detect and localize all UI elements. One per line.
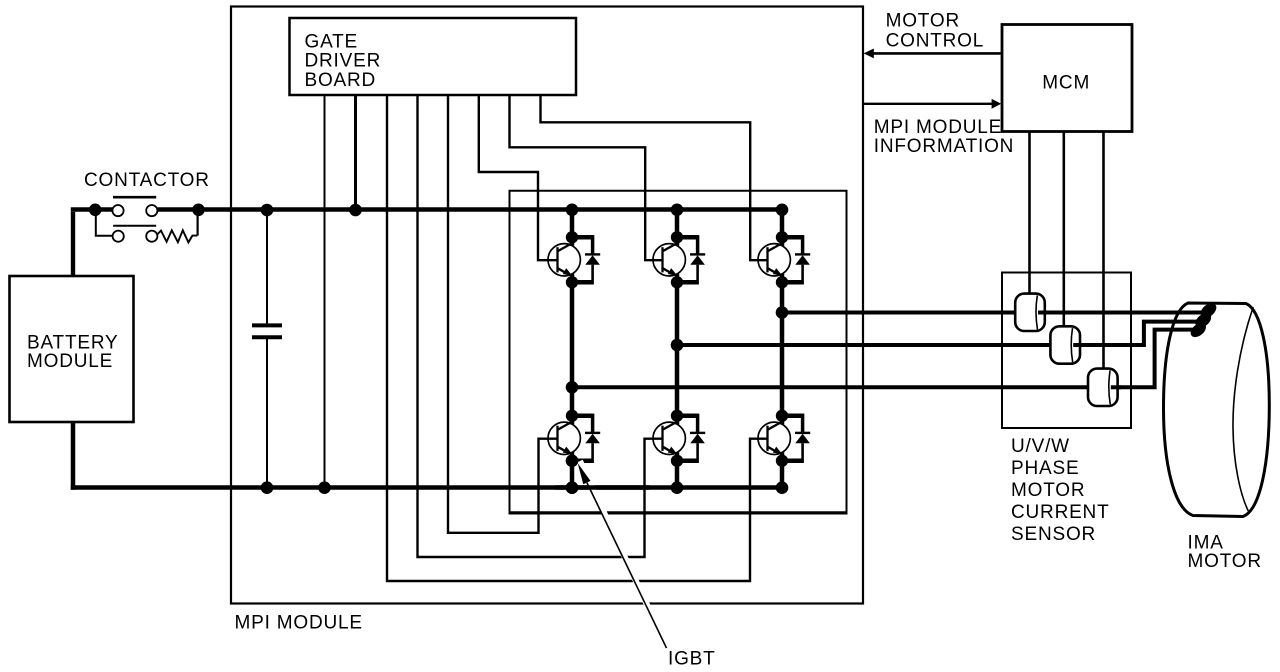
contactor K1: precharge contact circle right: [146, 231, 157, 242]
MPI MODULE enclosure box: [231, 7, 863, 604]
MPI MODULE INFORMATION arrow line: [863, 103, 993, 105]
GATE DRIVER BOARD box U10: [290, 18, 577, 95]
junction dot: W phase tap: [776, 306, 789, 319]
IGBT callout arrow line: [587, 483, 667, 648]
junction dot: driver pin 1 to negative bus: [318, 481, 331, 494]
svg-text:MPI MODULE: MPI MODULE: [235, 613, 363, 634]
wire: V phase column top feed: [675, 210, 680, 239]
wire: gate driver pin 1 to negative bus: [324, 95, 326, 488]
wire: U phase column middle: [570, 281, 575, 417]
IMA motor M1 body: [1164, 303, 1270, 517]
current sensor CT2 (V phase): [1050, 326, 1080, 363]
contactor K1: main contact circle right: [146, 205, 157, 216]
wire: MCM to current sensor CT1: [1028, 132, 1031, 295]
svg-text:MODULE: MODULE: [27, 351, 113, 372]
capacitor C1 bottom plate: [252, 335, 282, 339]
redraw: Q2 to negative bus junction dot: [566, 481, 579, 494]
current sensor CT1 (W phase): [1015, 294, 1045, 331]
svg-text:CONTROL: CONTROL: [886, 31, 985, 52]
svg-text:MOTOR: MOTOR: [886, 10, 960, 31]
wire: W phase column bottom to negative bus: [780, 460, 785, 488]
wire: gate driver pin 2 to positive bus (thick): [354, 95, 357, 210]
svg-text:MOTOR: MOTOR: [1011, 480, 1085, 501]
svg-text:GATE: GATE: [305, 31, 359, 52]
current sensor CT3 (U phase): [1088, 369, 1118, 406]
svg-text:MCM: MCM: [1042, 72, 1090, 93]
wire: battery positive lead: [71, 212, 75, 276]
contactor K1: main contact bar: [113, 196, 156, 199]
node A junction dot: [89, 204, 102, 217]
wire: positive bus left segment: [71, 207, 113, 211]
wire: MCM to current sensor CT2: [1063, 132, 1066, 328]
wire: precharge branch from node A: [96, 214, 113, 236]
junction dot: U phase tap: [566, 381, 579, 394]
motor terminal dot W: [1198, 300, 1219, 320]
svg-text:DRIVER: DRIVER: [305, 51, 382, 72]
IGBT Q4 (V phase low side): [653, 410, 705, 467]
IGBT callout arrowhead: [578, 463, 591, 484]
wire: W phase column middle: [780, 281, 785, 417]
wire: negative bus: [71, 485, 782, 490]
wire: precharge branch to node B: [197, 210, 199, 236]
junction dot: C1 to positive bus: [261, 204, 274, 217]
wire: W phase column top feed: [780, 210, 785, 239]
wire: gate drive to top IGBT Q3 base: [510, 95, 664, 260]
junction dot: U column to positive bus: [566, 204, 579, 217]
IGBT Q5 (W phase high side): [758, 231, 810, 288]
wire: U phase output to motor: [572, 330, 1197, 388]
svg-text:IGBT: IGBT: [668, 649, 716, 670]
motor terminal dot U: [1188, 320, 1209, 340]
wire: gate drive to top IGBT Q1 base: [479, 95, 558, 260]
precharge resistor R1: [157, 230, 197, 242]
wire: gate drive to top IGBT Q5 base: [541, 95, 769, 260]
junction dot: W column to positive bus: [776, 204, 789, 217]
MPI MODULE INFORMATION arrowhead: [992, 99, 1002, 109]
svg-text:MOTOR: MOTOR: [1188, 551, 1262, 572]
inner IGBT bridge box bottom edge: [509, 511, 848, 514]
capacitor C1 bottom lead: [266, 339, 268, 488]
motor terminal dot V: [1193, 310, 1214, 330]
wire: W phase output to motor: [782, 311, 1204, 315]
junction dot: U column to negative bus: [566, 481, 579, 494]
svg-text:CONTACTOR: CONTACTOR: [84, 170, 210, 191]
IGBT Q6 (W phase low side): [758, 410, 810, 467]
BATTERY MODULE box BT1: [10, 276, 134, 422]
svg-text:INFORMATION: INFORMATION: [874, 136, 1014, 157]
wire: U phase column top feed: [570, 210, 575, 239]
wire: positive bus main segment: [157, 207, 782, 211]
junction dot: driver pin 2 to positive bus: [349, 204, 362, 217]
svg-text:CURRENT: CURRENT: [1011, 502, 1110, 523]
wire: gate drive to bottom IGBT Q4 base: [418, 95, 664, 557]
junction dot: V column to negative bus: [671, 481, 684, 494]
wire: gate drive to bottom IGBT Q2 base: [448, 95, 558, 533]
wire: V phase output to motor: [677, 322, 1200, 345]
MOTOR CONTROL arrowhead: [864, 49, 874, 59]
svg-text:PHASE: PHASE: [1011, 458, 1079, 479]
junction dot: C1 to negative bus: [261, 481, 274, 494]
inner IGBT bridge box: [510, 191, 847, 513]
node B junction dot: [192, 204, 205, 217]
svg-text:U/V/W: U/V/W: [1011, 436, 1070, 457]
wire: V phase column middle: [675, 281, 680, 417]
MCM box U20: [1002, 25, 1132, 132]
contactor K1: main contact circle left: [112, 205, 123, 216]
redraw: Q2 emitter junction dot: [566, 455, 579, 468]
current sensor assembly box: [1002, 273, 1131, 429]
contactor K1: precharge contact bar: [113, 225, 156, 227]
svg-text:BOARD: BOARD: [305, 70, 377, 91]
svg-text:MPI MODULE: MPI MODULE: [874, 117, 1002, 138]
contactor K1: precharge contact circle left: [113, 231, 124, 242]
IMA motor face rim arc: [1233, 307, 1253, 511]
IGBT callout arrow white casing: [580, 461, 668, 650]
wire: U phase column bottom to negative bus: [570, 460, 575, 488]
svg-text:SENSOR: SENSOR: [1011, 524, 1096, 545]
wire: MCM to current sensor CT3: [1102, 132, 1105, 370]
MOTOR CONTROL arrow line: [873, 52, 1003, 55]
junction dot: V column to positive bus: [671, 204, 684, 217]
smoothing capacitor C1 top lead: [266, 210, 268, 324]
wire: V phase column bottom to negative bus: [675, 460, 680, 488]
wire: gate drive to bottom IGBT Q6 base: [387, 95, 768, 581]
junction dot: W column to negative bus: [776, 481, 789, 494]
wire: battery negative lead: [71, 422, 76, 490]
junction dot: V phase tap: [671, 339, 684, 352]
redraw: negative bus over callout arrow: [555, 485, 650, 490]
capacitor C1 top plate: [252, 323, 282, 327]
IGBT Q2 (U phase low side): [548, 410, 600, 467]
IGBT Q1 (U phase high side): [548, 231, 600, 288]
IGBT Q3 (V phase high side): [653, 231, 705, 288]
